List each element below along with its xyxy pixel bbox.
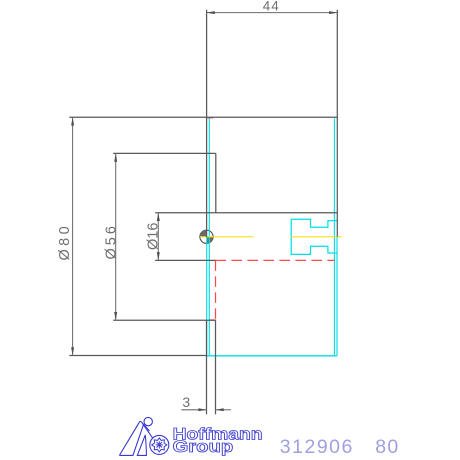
svg-text:312906: 312906 — [280, 436, 354, 458]
svg-text:80: 80 — [375, 436, 399, 458]
svg-text:Group: Group — [173, 437, 234, 456]
svg-text:Ø16: Ø16 — [146, 223, 162, 250]
svg-text:44: 44 — [263, 0, 280, 13]
svg-text:Ø80: Ø80 — [57, 223, 73, 261]
svg-text:3: 3 — [182, 394, 190, 410]
svg-text:Ø56: Ø56 — [103, 223, 119, 259]
